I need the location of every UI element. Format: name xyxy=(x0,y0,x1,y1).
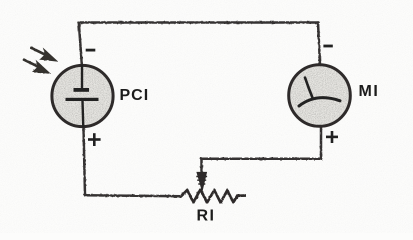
meter M1 circle xyxy=(289,65,351,127)
plus sign at PC1 bottom xyxy=(88,133,101,146)
wire bottom (PC1 bottom to R1 left lead) xyxy=(85,194,181,197)
svg-text:RI: RI xyxy=(197,208,216,225)
wire top (PC1 top to M1 top) xyxy=(79,21,319,24)
minus sign at PC1 top xyxy=(86,49,96,52)
M1 scale arc xyxy=(299,98,340,106)
resistor R1 zigzag body xyxy=(181,189,246,202)
wire right vertical above M1 xyxy=(318,23,320,65)
M1 needle xyxy=(305,78,313,99)
svg-text:MI: MI xyxy=(359,83,380,100)
wiper arrowhead of R1 xyxy=(196,172,207,191)
wire wiper horizontal (corner to M1 branch) xyxy=(202,157,322,160)
wire left vertical above PC1 xyxy=(79,23,82,65)
svg-text:PCI: PCI xyxy=(120,87,150,104)
wire right vertical below M1 (M1 bottom to corner) xyxy=(320,127,323,159)
wire left vertical below PC1 xyxy=(84,128,86,196)
light arrow 1 (upper) xyxy=(30,47,56,61)
light arrow 2 (lower) xyxy=(23,59,49,73)
wire wiper vertical stub xyxy=(200,159,203,173)
minus sign at M1 top xyxy=(323,45,332,48)
photocell PC1 circle xyxy=(52,65,113,126)
plus sign at M1 bottom xyxy=(326,131,338,143)
PC1 internal battery symbol xyxy=(66,65,99,128)
